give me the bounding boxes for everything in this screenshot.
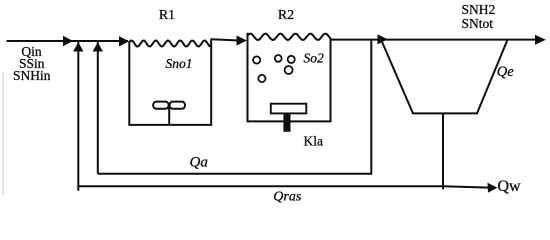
svg-text:Kla: Kla: [304, 133, 324, 148]
svg-text:SNH2: SNH2: [462, 2, 496, 17]
svg-text:SNtot: SNtot: [462, 16, 494, 31]
svg-text:Qw: Qw: [498, 178, 522, 195]
svg-text:Qe: Qe: [497, 64, 514, 80]
svg-text:Qa: Qa: [190, 155, 208, 171]
svg-text:So2: So2: [303, 50, 324, 65]
svg-text:SNHin: SNHin: [13, 68, 51, 83]
svg-text:R2: R2: [278, 8, 294, 23]
svg-text:R1: R1: [159, 8, 175, 23]
svg-text:Qras: Qras: [273, 190, 302, 205]
svg-text:Sno1: Sno1: [166, 56, 193, 71]
